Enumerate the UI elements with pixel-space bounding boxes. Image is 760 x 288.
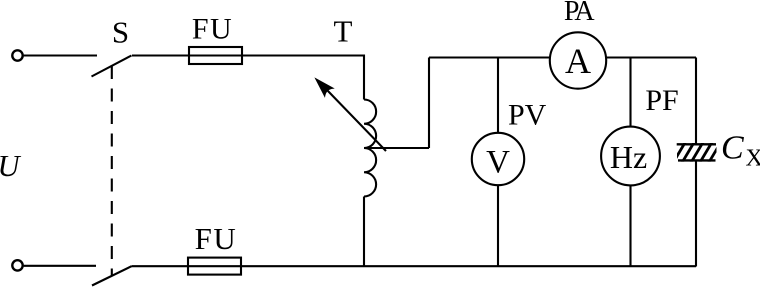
wire right branch lower from capacitor (695, 160, 697, 266)
ammeter PA circle (550, 32, 606, 88)
wire top rail from switch to fuse (132, 54, 189, 56)
switch S top blade (92, 56, 132, 77)
svg-text:X: X (746, 146, 760, 172)
wire bottom rail left segment (24, 265, 96, 267)
wiper arrow of T (327, 90, 386, 151)
wire bottom rail through fuse to right end (188, 265, 696, 267)
wire PF branch upper (629, 58, 631, 127)
terminal bottom-left (12, 260, 22, 270)
wire from coil bottom to bottom rail (363, 197, 365, 267)
riser wire to measurement bus (428, 58, 430, 149)
wire PV branch upper (497, 58, 499, 134)
svg-text:FU: FU (192, 13, 233, 46)
winding of T (autotransformer coil) (364, 100, 376, 197)
frequency meter PF circle (601, 127, 660, 186)
svg-text:PV: PV (508, 99, 547, 132)
wire right branch upper to capacitor (695, 58, 697, 145)
wire bottom rail (132, 265, 189, 267)
svg-text:U: U (0, 149, 22, 183)
terminal top-left (12, 50, 22, 60)
svg-text:T: T (334, 14, 353, 49)
svg-text:PF: PF (645, 84, 678, 117)
fuse FU2 body (188, 258, 241, 275)
arrowhead (316, 79, 334, 97)
svg-text:PA: PA (564, 0, 596, 27)
svg-text:Hz: Hz (610, 139, 647, 175)
bus wire from PA to right corner (606, 56, 696, 58)
wire top rail left segment (24, 54, 97, 56)
switch linkage dashed line (111, 66, 113, 276)
measurement bus wire (429, 56, 550, 58)
svg-text:A: A (565, 41, 591, 81)
wire through fuse FU1 and to T corner (189, 56, 364, 100)
svg-text:C: C (721, 129, 744, 166)
svg-text:V: V (486, 145, 510, 181)
wire PF branch lower (629, 185, 631, 266)
tap wire from coil (364, 147, 429, 149)
voltmeter PV circle (472, 133, 524, 185)
wire PV branch lower (497, 185, 499, 266)
capacitor Cx bottom plate (678, 159, 716, 161)
capacitor Cx top plate (677, 143, 716, 145)
fuse FU1 body (189, 47, 242, 64)
svg-text:S: S (112, 15, 129, 50)
svg-text:FU: FU (195, 221, 238, 256)
capacitor Cx hatching (673, 142, 721, 164)
switch S bottom blade (92, 266, 132, 285)
